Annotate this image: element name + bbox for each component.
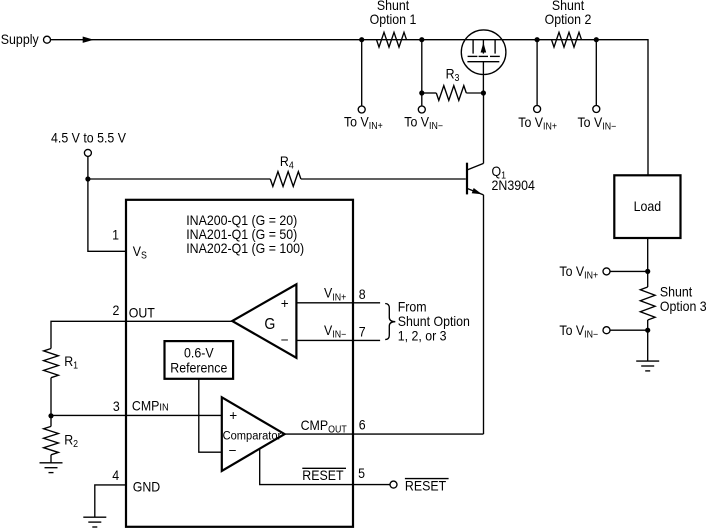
wire load to shunt option 3 [647, 238, 649, 287]
svg-text:5: 5 [358, 466, 365, 482]
node junction VS branch [85, 176, 90, 181]
svg-text:3: 3 [113, 398, 120, 414]
ground at GND pin [83, 517, 106, 527]
terminal To VIN+ (option 3) [559, 263, 647, 280]
label VIN- pin 7 [324, 322, 366, 339]
wire RESET from comparator to pin 5 [260, 449, 390, 485]
wire CMPIN node to comparator plus input [51, 414, 222, 416]
pin 3 CMPIN [113, 398, 169, 414]
svg-text:4.5 V to 5.5 V: 4.5 V to 5.5 V [51, 130, 126, 146]
wire R1 to node [50, 378, 52, 417]
label RESET pin 5 [302, 466, 365, 484]
wire amp VIN+ pin 8 [296, 302, 380, 304]
wire VS rail to R4 [88, 178, 270, 180]
pin 2 OUT [112, 302, 154, 320]
resistor Shunt Option 2 [545, 0, 592, 47]
terminal 4.5 V to 5.5 V [51, 130, 126, 156]
arrow current direction on supply rail [83, 37, 94, 43]
svg-text:+: + [281, 296, 289, 311]
transistor Q1 2N3904 [467, 163, 535, 195]
wire drop to To VIN- terminal (option 1) [421, 40, 423, 106]
wire reference to comparator minus input [199, 379, 222, 452]
ground at shunt option 3 [636, 361, 659, 371]
label VIN+ pin 8 [324, 285, 366, 302]
node junction To VIN- (option 3) [645, 328, 650, 333]
svg-text:RESET: RESET [405, 478, 446, 494]
wire drop to To VIN+ terminal (option 2) [536, 40, 538, 106]
svg-text:RESET: RESET [302, 467, 343, 483]
svg-text:GND: GND [133, 479, 160, 495]
node junction R3 left [419, 90, 424, 95]
svg-text:Reference: Reference [170, 360, 227, 376]
wire supply top rail [51, 40, 649, 176]
wire OUT from amp through pin 2 to R1 [51, 321, 232, 348]
terminal To VIN- (option 1) [404, 106, 443, 131]
resistor Shunt Option 1 [370, 0, 417, 47]
node junction right of Shunt Option 1 [419, 37, 424, 42]
svg-text:0.6-V: 0.6-V [184, 345, 214, 361]
svg-text:2: 2 [112, 302, 119, 318]
resistor R3 [436, 66, 466, 100]
svg-text:OUT: OUT [129, 305, 155, 321]
wire shunt option 3 to ground [647, 320, 649, 361]
svg-text:+: + [229, 408, 237, 423]
transistor pass FET [461, 30, 506, 75]
wire CMPOUT pin 6 from comparator to Q1 emitter [285, 433, 484, 435]
terminal RESET [390, 478, 449, 494]
svg-text:−: − [281, 333, 289, 348]
svg-text:8: 8 [359, 287, 366, 303]
terminal Supply [1, 31, 51, 47]
load box [614, 175, 680, 238]
resistor R4 [270, 153, 301, 186]
wire Q1 emitter down to CMPOUT line [483, 195, 485, 434]
resistor Shunt Option 3 [640, 284, 706, 320]
svg-text:Option 3: Option 3 [660, 299, 706, 315]
node junction CMPIN divider [48, 413, 53, 418]
resistor R1 [44, 349, 78, 378]
svg-text:2N3904: 2N3904 [492, 177, 535, 193]
svg-text:Option 2: Option 2 [545, 12, 592, 28]
wire VS down into pin 1 [88, 179, 126, 251]
wire GND pin to ground [95, 485, 126, 517]
pin 4 GND [112, 467, 160, 494]
svg-text:−: − [229, 443, 237, 458]
terminal To VIN- (option 3) [559, 322, 647, 339]
svg-text:INA202-Q1 (G = 100): INA202-Q1 (G = 100) [186, 240, 304, 256]
terminal To VIN+ (option 1) [344, 106, 383, 131]
wire amp VIN- pin 7 [296, 339, 380, 341]
svg-text:Shunt: Shunt [660, 284, 693, 300]
svg-text:Option 1: Option 1 [370, 12, 417, 28]
IC box INA200/201/202 [126, 200, 353, 527]
svg-text:Supply: Supply [1, 31, 39, 47]
label CMPOUT pin 6 [301, 417, 366, 434]
pin 1 VS [112, 227, 147, 261]
terminal To VIN- (option 2) [578, 106, 617, 132]
svg-text:7: 7 [359, 324, 366, 340]
wire Q1 collector up to gate node [483, 93, 485, 163]
node junction right of Shunt Option 2 [594, 37, 599, 42]
wire node to R2 [50, 417, 52, 426]
comparator U2 [222, 397, 285, 471]
svg-text:Shunt Option: Shunt Option [398, 313, 470, 329]
wire drop to To VIN+ terminal (option 1) [361, 40, 363, 106]
svg-text:From: From [398, 299, 427, 315]
wire R3 left to VIN- drop [422, 92, 437, 94]
node junction R3 right at gate [481, 90, 486, 95]
ground below R2 [40, 455, 63, 473]
svg-text:6: 6 [359, 417, 366, 433]
op-amp G current sense amplifier [232, 284, 296, 358]
svg-text:Comparator: Comparator [223, 429, 282, 443]
reference 0.6-V box [165, 341, 234, 379]
terminal To VIN+ (option 2) [518, 106, 557, 132]
node junction left of Shunt Option 1 [359, 37, 364, 42]
wire R4 to Q1 base [301, 178, 466, 180]
brace From Shunt Option 1 2 or 3 [385, 299, 470, 344]
resistor R2 [44, 426, 78, 454]
svg-text:1, 2, or 3: 1, 2, or 3 [398, 328, 447, 344]
wire 4.5V terminal down to VS branch [87, 156, 89, 179]
node junction left of Shunt Option 2 [535, 37, 540, 42]
wire drop to To VIN- terminal (option 2) [595, 40, 597, 106]
svg-text:G: G [264, 317, 275, 334]
svg-text:4: 4 [112, 467, 119, 483]
wire R3 right to gate node [466, 92, 483, 94]
wire FET gate down to R3 node [482, 62, 484, 93]
svg-text:Load: Load [634, 199, 662, 215]
node junction To VIN+ (option 3) [645, 269, 650, 274]
svg-text:1: 1 [112, 227, 119, 243]
